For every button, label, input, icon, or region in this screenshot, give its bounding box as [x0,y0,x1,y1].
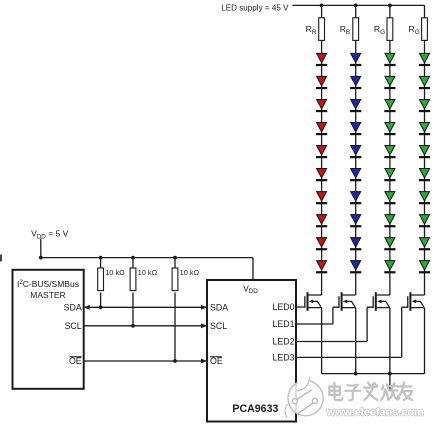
svg-text:OE: OE [69,356,82,366]
svg-text:10 kΩ: 10 kΩ [180,268,200,277]
svg-text:I2C-BUS/SMBus: I2C-BUS/SMBus [17,279,79,289]
svg-text:LED supply = 45 V: LED supply = 45 V [221,3,289,12]
svg-text:10 kΩ: 10 kΩ [105,268,125,277]
svg-text:SDA: SDA [64,303,82,313]
svg-text:SCL: SCL [210,321,227,331]
svg-text:LED0: LED0 [272,302,294,312]
svg-text:LED2: LED2 [272,337,294,347]
svg-text:SDA: SDA [210,303,228,313]
svg-text:10 kΩ: 10 kΩ [138,268,158,277]
svg-text:www.elecfans.com: www.elecfans.com [326,407,424,419]
svg-text:SCL: SCL [65,321,82,331]
svg-text:PCA9633: PCA9633 [232,403,278,415]
svg-text:LED3: LED3 [272,353,294,363]
svg-text:MASTER: MASTER [30,290,65,300]
svg-text:OE: OE [210,356,223,366]
svg-text:LED1: LED1 [272,319,294,329]
